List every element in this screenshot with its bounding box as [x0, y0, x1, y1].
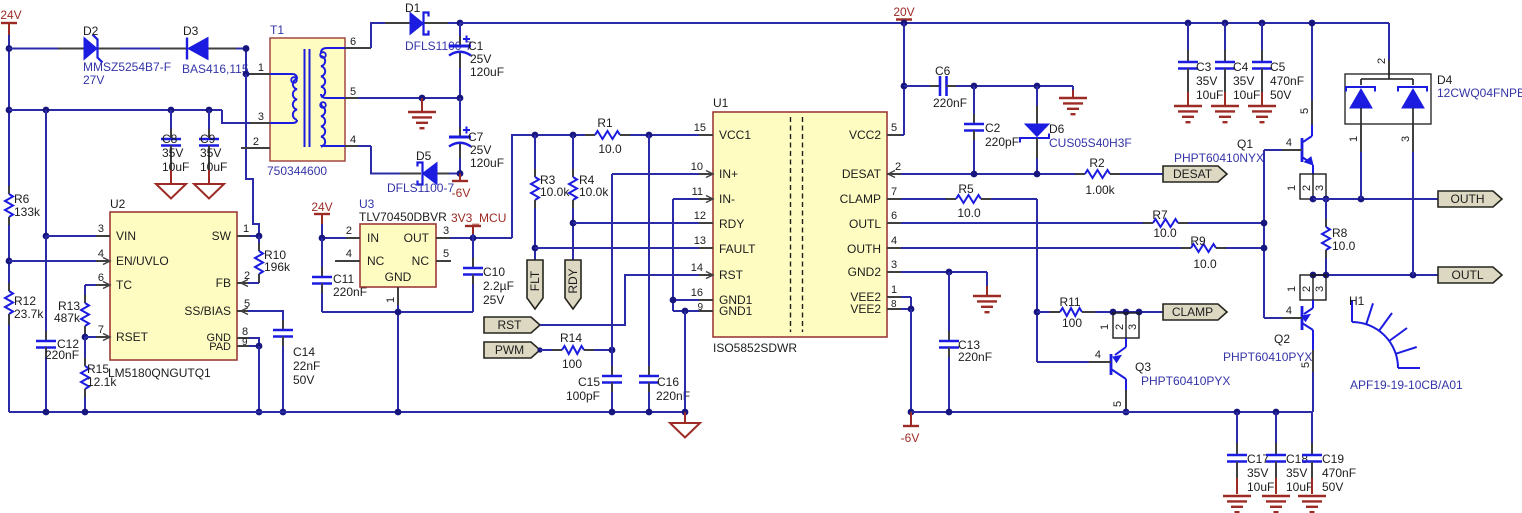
svg-text:C3: C3 — [1196, 60, 1212, 74]
svg-text:R12: R12 — [14, 294, 36, 308]
U1 pin 13 stub (FAULT) — [694, 235, 713, 248]
junction bus/C13 — [946, 409, 953, 416]
svg-text:10.0k: 10.0k — [579, 185, 609, 199]
junction Q3 pin2 col — [1123, 309, 1130, 316]
svg-text:C7: C7 — [468, 130, 484, 144]
resistor R14 100 — [552, 331, 594, 371]
wire U2 SW pin to R10 — [250, 235, 259, 237]
net flag DESAT — [1163, 166, 1227, 182]
svg-text:CLAMP: CLAMP — [1172, 305, 1213, 319]
U3 pin 1 stub (GND) — [385, 287, 398, 305]
svg-text:4: 4 — [1095, 349, 1101, 361]
capacitor C4 35V 10uF — [1215, 23, 1260, 105]
wire R10 to FB — [248, 282, 259, 284]
power port 24V (top-left) — [0, 8, 21, 35]
junction GND1 pin9 drop — [682, 308, 689, 315]
ground (earth) C18 — [1262, 495, 1290, 497]
junction VCC2/C6 node — [901, 83, 908, 90]
svg-text:5: 5 — [443, 248, 449, 260]
svg-text:D3: D3 — [183, 24, 199, 38]
svg-text:R5: R5 — [958, 182, 974, 196]
wire R4 to RDY — [572, 208, 574, 260]
wire R5 to clamp vertical — [991, 199, 1037, 362]
diode D1 DFLS1100-7 — [385, 1, 472, 53]
svg-text:RST: RST — [498, 318, 523, 332]
svg-text:-6V: -6V — [452, 186, 471, 200]
svg-text:24V: 24V — [311, 200, 332, 214]
svg-text:OUT: OUT — [404, 231, 430, 245]
svg-text:VCC2: VCC2 — [849, 128, 881, 142]
U1 pin 7 stub (CLAMP) — [887, 186, 901, 199]
U1 pin 9 stub (GND1) — [697, 302, 713, 313]
wire R2 to DESAT flag — [1120, 173, 1163, 175]
junction bus/Q3 — [1123, 409, 1130, 416]
wire VEE2 to -6V bus — [910, 309, 912, 412]
svg-text:PWM: PWM — [495, 343, 524, 357]
svg-text:C10: C10 — [483, 265, 505, 279]
svg-text:10.0: 10.0 — [1193, 257, 1217, 271]
U1 pin 1 stub (VEE2) — [887, 284, 901, 297]
junction bus/GNDPAD — [256, 409, 263, 416]
svg-text:3: 3 — [891, 259, 897, 271]
junction bus/R15 — [82, 409, 89, 416]
capacitor C1 25V 120uF (polarized) — [449, 23, 504, 98]
svg-text:2: 2 — [1114, 324, 1126, 330]
junction rail/C5 — [1259, 20, 1266, 27]
svg-text:13: 13 — [694, 235, 706, 247]
svg-text:3V3_MCU: 3V3_MCU — [451, 211, 506, 225]
capacitor C9 35V 10uF — [199, 110, 227, 174]
svg-text:8: 8 — [891, 299, 897, 310]
IC U2 LM5180QNGUTQ1 — [108, 197, 237, 380]
svg-text:2: 2 — [244, 270, 250, 282]
wire 20V rail to D4 pin2 — [1388, 23, 1390, 74]
wire -6V bus — [911, 411, 1312, 413]
svg-text:7: 7 — [98, 324, 104, 336]
resistor R3 10.0k — [531, 135, 570, 208]
svg-text:35V: 35V — [1286, 466, 1307, 480]
svg-text:25V: 25V — [470, 52, 491, 66]
U1 pin 5 stub (VCC2) — [887, 122, 901, 135]
capacitor C13 220nF — [939, 272, 992, 412]
resistor R6 133k — [5, 186, 41, 225]
junction Q1 emitter/OUTH — [1310, 196, 1317, 203]
svg-text:470nF: 470nF — [1322, 466, 1356, 480]
wire VCC2 to 20V — [901, 23, 904, 135]
junction bus/gnd drop — [682, 409, 689, 416]
svg-text:TC: TC — [116, 278, 132, 292]
svg-text:-6V: -6V — [901, 431, 920, 445]
svg-text:5: 5 — [891, 122, 897, 134]
net flag OUTL — [1438, 267, 1502, 283]
svg-text:120uF: 120uF — [470, 65, 504, 79]
junction C7/D5/-6V — [457, 170, 464, 177]
svg-text:6: 6 — [98, 272, 104, 284]
power port -6V (driver) — [901, 412, 920, 445]
svg-text:3: 3 — [1314, 185, 1326, 191]
ground (earth) C19 — [1298, 495, 1326, 497]
junction -6V bus left end — [908, 409, 915, 416]
wire D4 pin1 to OUTH — [1360, 152, 1362, 199]
svg-text:C9: C9 — [200, 132, 216, 146]
junction base/R9 — [1261, 245, 1268, 252]
svg-text:IN+: IN+ — [719, 167, 738, 181]
junction GND/PAD — [256, 343, 263, 350]
svg-text:5: 5 — [350, 86, 356, 98]
svg-text:MMSZ5254B7-F: MMSZ5254B7-F — [83, 60, 171, 74]
wire FAULT line — [535, 247, 699, 249]
svg-text:R14: R14 — [560, 331, 582, 345]
T1 pin 6 stub — [345, 36, 371, 48]
IC U1 ISO5852SDWR — [713, 96, 887, 355]
wire EN/UVLO — [9, 260, 96, 262]
T1 pin 4 stub — [345, 134, 358, 146]
svg-text:PAD: PAD — [209, 341, 231, 353]
svg-text:OUTH: OUTH — [1451, 192, 1485, 206]
svg-text:50V: 50V — [1322, 480, 1343, 494]
svg-text:R15: R15 — [87, 362, 109, 376]
svg-text:C19: C19 — [1322, 452, 1344, 466]
junction GND2/C13 — [946, 269, 953, 276]
svg-text:R1: R1 — [597, 116, 613, 130]
junction bus/C12 — [43, 409, 50, 416]
hardware H1 APF19-19-10CB/A01 (heatsink) — [1349, 294, 1463, 392]
svg-text:RSET: RSET — [116, 330, 149, 344]
junction U3 gnd — [395, 309, 402, 316]
junction base/R7 — [1261, 220, 1268, 227]
capacitor C10 2.2uF 25V — [463, 234, 514, 312]
svg-text:FB: FB — [216, 276, 231, 290]
wire T1 pin5 to C1/C7 node — [358, 97, 460, 99]
diode D4 12CWQ04FNPBF (dual schottky) — [1345, 58, 1522, 152]
U2 pin 4 stub (EN/UVLO) — [96, 248, 110, 265]
resistor R13 487k — [54, 295, 89, 337]
svg-text:C17: C17 — [1247, 452, 1269, 466]
U2 pin 2 stub (FB) — [237, 270, 250, 287]
IC U3 TLV70450DBVR — [359, 197, 447, 287]
wire R9 line OUTH — [901, 247, 1181, 249]
U1 pin 3 stub (GND2) — [887, 259, 901, 272]
junction 24V/D2 — [6, 45, 13, 52]
svg-text:RDY: RDY — [566, 268, 580, 293]
svg-text:750344600: 750344600 — [267, 164, 327, 178]
junction Q3 pin1 col — [1110, 309, 1117, 316]
junction D1/C1 — [457, 20, 464, 27]
resistor R12 23.7k — [5, 283, 44, 325]
svg-text:C8: C8 — [162, 132, 178, 146]
U1 pin 4 stub (OUTH) — [887, 235, 901, 248]
svg-text:10uF: 10uF — [1233, 88, 1260, 102]
svg-text:1.00k: 1.00k — [1085, 183, 1115, 197]
capacitor C12 220nF — [36, 236, 79, 412]
svg-text:GND1: GND1 — [719, 304, 753, 318]
wire VCC2 node to C6 — [904, 85, 930, 87]
svg-text:2: 2 — [1376, 58, 1388, 64]
wire VIN column from bus — [45, 110, 47, 236]
svg-text:APF19-19-10CB/A01: APF19-19-10CB/A01 — [1350, 378, 1463, 392]
svg-text:5: 5 — [1299, 108, 1311, 114]
svg-text:9: 9 — [242, 337, 248, 348]
svg-text:DFLS1100-7: DFLS1100-7 — [387, 181, 454, 195]
junction PWM flag — [537, 347, 542, 352]
wire U3 OUT to 3V3 node — [450, 237, 512, 239]
svg-text:C4: C4 — [1233, 60, 1249, 74]
junction D3/T1 corner — [243, 45, 250, 52]
resistor R8 10.0 — [1322, 199, 1356, 275]
svg-text:10uF: 10uF — [1196, 88, 1223, 102]
U1 pin 15 stub (VCC1) — [694, 122, 713, 135]
resistor R4 10.0k — [569, 135, 609, 208]
capacitor C14 22nF 50V — [273, 320, 320, 412]
power port 24V (at U3) — [311, 200, 332, 224]
U1 pin 11 stub (IN-) — [692, 186, 713, 203]
junction OUTH/R8 — [1323, 196, 1330, 203]
resistor R9 10.0 — [1181, 234, 1226, 271]
capacitor C16 220nF — [639, 135, 690, 412]
T1 pin 5 stub — [345, 86, 358, 98]
ground (triangle) below C8 — [156, 170, 186, 199]
wire 24V to D2 — [9, 48, 58, 50]
capacitor C6 220nF — [930, 64, 967, 110]
junction VCC1/R4 — [570, 132, 577, 139]
svg-text:BAS416,115: BAS416,115 — [182, 62, 249, 76]
junction 24V/C11/IN — [319, 235, 326, 242]
wire 24V bus to C8/C9/T1 pin3 — [9, 110, 252, 123]
svg-text:14: 14 — [691, 262, 703, 274]
svg-text:5: 5 — [244, 298, 250, 310]
svg-text:SS/BIAS: SS/BIAS — [184, 304, 231, 318]
ground (earth) secondary mid — [408, 98, 436, 128]
U3 pin 4 stub (NC) — [335, 248, 360, 261]
svg-text:6: 6 — [891, 210, 897, 222]
transistor Q1 PHPT60410NYX (NPN) — [1174, 108, 1326, 199]
svg-text:35V: 35V — [200, 146, 221, 160]
net flag RDY — [565, 260, 581, 309]
junction RSET node — [82, 334, 89, 341]
svg-text:2: 2 — [346, 225, 352, 237]
ground (earth) C17 — [1223, 495, 1251, 497]
capacitor C5 470nF 50V — [1252, 23, 1304, 105]
junction C1/C7 — [457, 95, 464, 102]
svg-text:1: 1 — [258, 62, 264, 74]
junction rail/C4 — [1222, 20, 1229, 27]
svg-text:C1: C1 — [468, 39, 484, 53]
svg-text:2: 2 — [253, 136, 259, 148]
svg-text:PHPT60410PYX: PHPT60410PYX — [1141, 374, 1230, 388]
U1 pin 6 stub (OUTL) — [887, 210, 901, 223]
svg-text:11: 11 — [692, 186, 703, 198]
svg-text:3: 3 — [258, 111, 264, 123]
junction VEE2 — [908, 306, 915, 313]
wire GND/PAD to bottom bus — [258, 346, 260, 412]
svg-text:120uF: 120uF — [470, 156, 504, 170]
svg-text:VEE2: VEE2 — [850, 302, 881, 316]
junction DESAT/D6 — [1034, 171, 1041, 178]
junction Q3 pin3 col — [1136, 309, 1143, 316]
junction rail/C3 — [1185, 20, 1192, 27]
capacitor C18 35V 10uF — [1266, 412, 1313, 494]
junction OUTH/D4 pin1 — [1358, 196, 1365, 203]
U2 pin 1 stub (SW) — [237, 223, 250, 236]
U1 pin 10 stub (IN+) — [691, 161, 713, 178]
U1 pin 2 stub (DESAT) — [887, 161, 901, 178]
svg-text:OUTH: OUTH — [847, 242, 881, 256]
junction bus/C16 — [646, 409, 653, 416]
svg-text:C16: C16 — [657, 375, 679, 389]
svg-text:GND: GND — [385, 270, 412, 284]
U2 pin 3 stub (VIN) — [96, 223, 110, 236]
T1 pin 3 stub — [250, 111, 270, 123]
svg-text:NC: NC — [412, 254, 430, 268]
svg-text:15: 15 — [694, 122, 706, 134]
svg-text:PHPT60410PYX: PHPT60410PYX — [1223, 350, 1312, 364]
U2 pin 6 stub (TC) — [96, 272, 110, 289]
svg-text:4: 4 — [1286, 305, 1292, 317]
wire D3 to T1 pin 1 — [236, 49, 254, 75]
junction rail/Q1 — [1309, 20, 1316, 27]
resistor R10 196k — [255, 236, 291, 283]
U1 pin 14 stub (RST) — [691, 262, 713, 279]
svg-text:DESAT: DESAT — [842, 167, 882, 181]
svg-text:D4: D4 — [1437, 73, 1453, 87]
wire T1 pin6 to D1 — [371, 23, 385, 48]
wire 3V3 to VCC1 rail — [512, 135, 585, 238]
svg-text:FAULT: FAULT — [719, 242, 756, 256]
svg-text:220nF: 220nF — [958, 350, 992, 364]
capacitor C3 35V 10uF — [1178, 23, 1223, 105]
junction IN+/C15 node — [609, 347, 616, 354]
junction C2 top — [971, 83, 978, 90]
wire R11 to CLAMP flag — [1095, 311, 1163, 313]
svg-text:3: 3 — [98, 223, 104, 235]
svg-text:LM5180QNGUTQ1: LM5180QNGUTQ1 — [108, 366, 211, 380]
power port 3V3_MCU — [451, 211, 506, 234]
junction bus/U3 — [395, 409, 402, 416]
svg-text:3: 3 — [443, 225, 449, 237]
svg-text:133k: 133k — [14, 205, 41, 219]
wire R7 to base node — [1188, 222, 1264, 224]
net flag FLT — [527, 260, 543, 309]
wire 24V to U3 IN — [322, 224, 346, 238]
wire GND2 to ground — [901, 272, 987, 286]
svg-text:10uF: 10uF — [200, 160, 227, 174]
svg-text:35V: 35V — [162, 146, 183, 160]
U3 pin 3 stub (OUT) — [436, 225, 450, 238]
svg-text:Q1: Q1 — [1237, 137, 1253, 151]
svg-text:23.7k: 23.7k — [14, 307, 44, 321]
capacitor C11 220nF — [312, 238, 367, 312]
capacitor C7 25V 120uF (polarized) — [449, 98, 504, 174]
svg-text:H1: H1 — [1349, 294, 1365, 308]
svg-text:220nF: 220nF — [933, 96, 967, 110]
svg-text:10.0: 10.0 — [1153, 226, 1177, 240]
transistor Q2 PHPT60410PYX (PNP) — [1223, 275, 1326, 412]
wire D2 to D3 — [120, 48, 160, 50]
junction FAULT node — [532, 245, 539, 252]
wire R1 to VCC1 pin — [630, 134, 699, 136]
wire OUTH line — [1313, 198, 1438, 200]
svg-text:100: 100 — [1062, 316, 1082, 330]
resistor R1 10.0 — [585, 116, 630, 156]
svg-text:R8: R8 — [1332, 226, 1348, 240]
U3 pin 5 stub (NC) — [436, 248, 451, 261]
junction OUTL/R8 — [1323, 272, 1330, 279]
svg-text:12CWQ04FNPBF: 12CWQ04FNPBF — [1437, 86, 1522, 100]
wire RSET to U2 — [85, 336, 96, 338]
svg-text:T1: T1 — [270, 23, 284, 37]
wire C6 to ground — [956, 86, 1073, 90]
svg-text:10uF: 10uF — [1286, 480, 1313, 494]
svg-text:7: 7 — [891, 186, 897, 198]
svg-text:1: 1 — [1286, 286, 1298, 292]
svg-text:NC: NC — [367, 254, 385, 268]
svg-text:16: 16 — [691, 287, 703, 299]
wire D4 pin3 to OUTL — [1412, 152, 1414, 275]
junction D6 top — [1034, 83, 1041, 90]
junction bus/C15 — [609, 409, 616, 416]
svg-text:EN/UVLO: EN/UVLO — [116, 254, 169, 268]
T1 pin 1 stub — [250, 62, 270, 74]
svg-text:1: 1 — [891, 284, 897, 296]
svg-text:6: 6 — [350, 36, 356, 48]
wire VIN to U2 — [46, 235, 96, 237]
capacitor C19 470nF 50V — [1302, 412, 1356, 494]
svg-text:2: 2 — [1301, 286, 1313, 292]
svg-text:10.0: 10.0 — [1332, 239, 1356, 253]
diode D3 (BAS416,115) — [160, 24, 249, 76]
wire RST to pin 14 — [540, 275, 699, 325]
svg-text:C6: C6 — [935, 64, 951, 78]
diode D2 (zener MMSZ5254B7-F) — [58, 24, 171, 87]
svg-text:Q2: Q2 — [1274, 332, 1290, 346]
wire 20V top rail — [460, 22, 1389, 24]
junction bus/C8 — [168, 107, 175, 114]
wire primary ground bus — [9, 411, 686, 413]
svg-text:3: 3 — [1127, 324, 1139, 330]
junction 24V rail/bus — [6, 107, 13, 114]
svg-text:20V: 20V — [893, 5, 914, 19]
junction DESAT/C2 — [971, 171, 978, 178]
wire 20V to Q1 collector — [1311, 23, 1313, 125]
svg-text:D6: D6 — [1049, 122, 1065, 136]
junction bus/C18 — [1273, 409, 1280, 416]
U2 pin 9 stub (PAD) — [237, 337, 249, 348]
junction VCC1/R3 — [532, 132, 539, 139]
svg-text:R6: R6 — [14, 192, 30, 206]
svg-text:VCC1: VCC1 — [719, 128, 751, 142]
svg-text:220pF: 220pF — [985, 135, 1019, 149]
svg-text:487k: 487k — [54, 311, 81, 325]
capacitor C2 220pF — [964, 86, 1019, 174]
svg-text:22nF: 22nF — [293, 359, 320, 373]
svg-text:U3: U3 — [359, 197, 375, 211]
transformer T1 750344600 — [267, 23, 345, 178]
svg-text:IN: IN — [367, 231, 379, 245]
wire SS/BIAS to C14 — [248, 311, 283, 320]
svg-text:2: 2 — [895, 161, 901, 173]
junction 3V3/C10 — [470, 235, 477, 242]
junction VCC1/C16 — [646, 132, 653, 139]
power port 20V — [893, 5, 914, 23]
svg-text:50V: 50V — [1270, 88, 1291, 102]
svg-text:3: 3 — [1314, 286, 1326, 292]
junction VIN/C12 — [43, 233, 50, 240]
resistor R15 12.1k — [81, 337, 117, 412]
wire GND1 pin9 — [673, 310, 699, 312]
svg-text:10.0: 10.0 — [957, 206, 981, 220]
wire R3 to FAULT/FLT — [534, 208, 536, 260]
junction bus/C14 — [280, 409, 287, 416]
